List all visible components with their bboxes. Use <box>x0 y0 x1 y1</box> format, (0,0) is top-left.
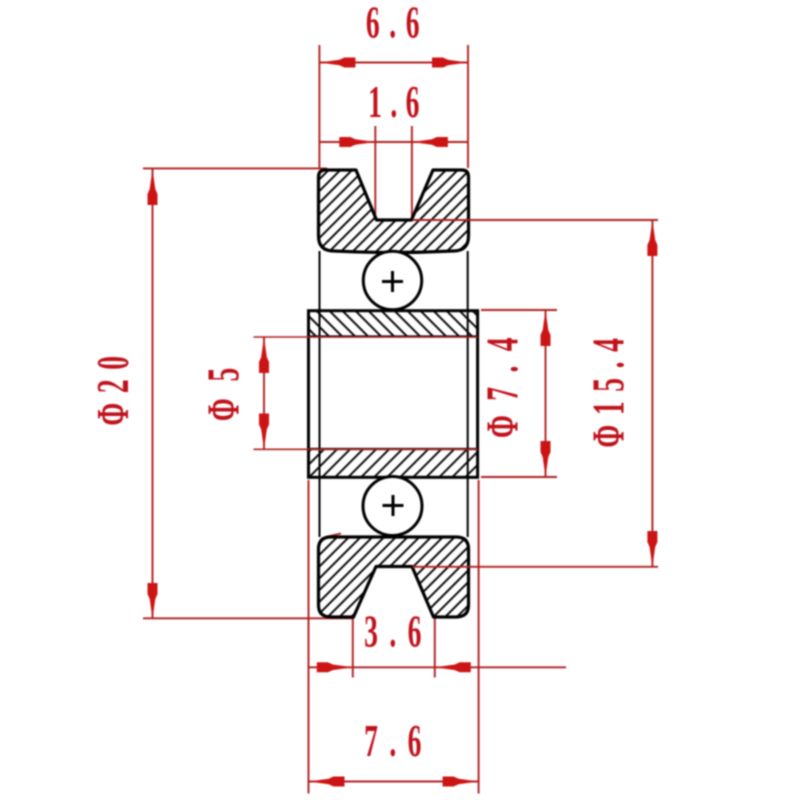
svg-text:7.6: 7.6 <box>364 716 433 767</box>
dim D5 extension top <box>254 336 478 338</box>
dim 6.6 extension left <box>318 45 320 168</box>
svg-text:Φ5: Φ5 <box>198 351 249 421</box>
arrow 6.6 right <box>432 58 468 68</box>
svg-text:Φ20: Φ20 <box>88 346 139 425</box>
arrow 3.6 right <box>435 662 471 672</box>
ball bottom <box>363 477 422 536</box>
arrow 1.6 right <box>412 137 448 147</box>
dim D7.4 line <box>545 310 547 477</box>
dim 3.6 line <box>308 666 566 668</box>
inner sleeve hub outline <box>309 311 478 478</box>
outer ring bottom section (grooved rim, cross-section) <box>319 537 469 617</box>
arrow D5 bottom <box>259 414 269 450</box>
arrow 1.6 left <box>339 137 375 147</box>
arrow D5 top <box>259 337 269 373</box>
arrow D20 top <box>148 169 158 205</box>
arrow 3.6 left <box>317 662 353 672</box>
dim 6.6 line <box>319 62 468 64</box>
dim 1.6 tick left <box>374 126 376 219</box>
dim 1.6 tick right <box>411 126 413 219</box>
arrow 7.6 right <box>443 777 479 787</box>
svg-text:1.6: 1.6 <box>368 77 428 128</box>
dim 7.6 extension left <box>308 480 310 794</box>
dim D20 extension bottom <box>143 617 354 619</box>
dim D15.4 extension bottom <box>413 566 659 568</box>
dim D5 line <box>263 337 265 450</box>
dim 7.6 line <box>309 781 479 783</box>
dim 3.6 tick right <box>434 616 436 678</box>
arrow D7.4 top <box>541 310 551 346</box>
dim D15.4 extension top <box>413 219 659 221</box>
bore line top <box>309 335 478 337</box>
dim D7.4 extension bottom <box>481 476 557 478</box>
bore line bottom <box>309 448 478 450</box>
arrow D15.4 bottom <box>647 531 657 567</box>
dim D7.4 extension top <box>481 309 557 311</box>
dim D5 extension bottom <box>254 448 478 450</box>
dim 1.6 line <box>319 141 468 143</box>
hub hatched wall top <box>309 311 478 337</box>
dim D15.4 line <box>651 220 653 567</box>
dim 3.6 tick left <box>352 616 354 678</box>
arrow 6.6 left <box>319 58 355 68</box>
outer ring bore silhouette line right <box>467 251 469 537</box>
stray red dash at bottom wheel corner <box>325 534 341 538</box>
ball bottom center cross <box>383 495 404 516</box>
svg-text:6.6: 6.6 <box>366 0 429 48</box>
arrow D7.4 bottom <box>541 441 551 477</box>
outer ring top section (grooved rim, cross-section) <box>319 170 469 253</box>
dim 7.6 extension right <box>478 480 480 794</box>
arrow D15.4 top <box>647 220 657 256</box>
hub hatched wall bottom <box>309 449 478 477</box>
dim D20 extension top <box>143 167 327 169</box>
svg-text:Φ15.4: Φ15.4 <box>583 328 634 447</box>
svg-text:Φ7.4: Φ7.4 <box>477 323 528 438</box>
ball top <box>363 251 421 309</box>
dim 6.6 extension right <box>467 45 469 168</box>
dim D20 line <box>152 169 154 619</box>
svg-text:3.6: 3.6 <box>364 606 433 657</box>
arrow 7.6 left <box>309 777 345 787</box>
outer ring bore silhouette line left <box>319 251 321 537</box>
arrow D20 bottom <box>148 583 158 619</box>
ball top center cross <box>382 271 403 292</box>
